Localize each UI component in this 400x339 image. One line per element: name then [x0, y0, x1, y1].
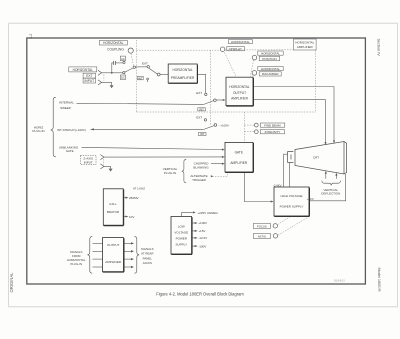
label box INPUT [83, 78, 96, 83]
svg-text:AT REAR: AT REAR [141, 252, 153, 256]
arrow into HV supply [271, 200, 274, 202]
INT contact stub [147, 80, 149, 82]
label box HORIZONTAL (magnifier) [258, 66, 283, 70]
horizontal-amplifier enclosure left edge [135, 40, 137, 112]
knob focus [273, 224, 277, 228]
wire: LV -100V stub [192, 245, 196, 247]
svg-text:POWER: POWER [176, 236, 188, 240]
svg-text:PLUG-IN: PLUG-IN [70, 262, 82, 266]
vertical deflection brace [322, 181, 341, 186]
vertical plug-in brace [182, 159, 186, 182]
contact EXT display [204, 119, 206, 121]
arrow vert defl right [335, 173, 337, 176]
arrow crt lower horiz [324, 142, 326, 145]
crt electron gun [288, 152, 294, 163]
svg-text:SUPPLY: SUPPLY [175, 243, 187, 247]
intensity knob stub [244, 131, 254, 133]
output amp input lines [93, 242, 103, 244]
svg-text:PLUG-IN: PLUG-IN [164, 171, 176, 175]
svg-text:HORIZONTAL: HORIZONTAL [295, 41, 314, 45]
svg-text:INT: INT [199, 107, 204, 111]
knob intensity [254, 130, 258, 134]
ext input jack signal [98, 70, 102, 75]
label box INT (sweep) [198, 108, 206, 111]
svg-text:DEFLECTION: DEFLECTION [321, 192, 340, 196]
svg-text:ASTIG: ASTIG [258, 234, 266, 238]
wire: chopped blanking [211, 163, 223, 165]
knob astig [273, 234, 277, 238]
rear panel right brace [134, 236, 139, 273]
wire: ext input ground lead [102, 82, 112, 85]
output amp output lines [124, 242, 132, 244]
svg-text:INT DISPLAY(+100V): INT DISPLAY(+100V) [57, 128, 86, 132]
svg-text:INPUT: INPUT [85, 79, 95, 83]
svg-text:AMPLIFIER: AMPLIFIER [231, 97, 249, 101]
knob find beam [254, 123, 258, 127]
coupling switch arm [125, 68, 133, 72]
wire: coupling pivot to EXT contact [136, 66, 148, 68]
label box DISPLAY [227, 47, 245, 51]
svg-text:FIND BEAM: FIND BEAM [264, 124, 281, 128]
svg-text:10V: 10V [129, 215, 134, 219]
box horizontal preamplifier [168, 64, 197, 83]
svg-text:ORIGINAL: ORIGINAL [9, 272, 14, 293]
enclosure right edge [315, 50, 317, 112]
wire: preamp output down to EXT contact [197, 74, 205, 93]
z-axis jack ground [100, 164, 104, 169]
focus knob linkage to HV supply [278, 216, 291, 224]
arrow alternate trigger [211, 175, 214, 177]
label box Z-AXIS INPUT (dashed) [80, 155, 96, 164]
label box FOCUS [253, 223, 270, 228]
arrow chopped blanking into gate amp [222, 163, 225, 165]
svg-text:POWER SUPPLY: POWER SUPPLY [280, 204, 304, 208]
svg-text:BRATOR: BRATOR [107, 210, 120, 214]
svg-text:GATE: GATE [66, 149, 74, 153]
svg-text:INT: INT [138, 76, 143, 80]
label box ASTIG [253, 233, 270, 238]
svg-text:-2.4KV: -2.4KV [273, 183, 282, 187]
linkage to gate amplifier [243, 112, 245, 142]
wire: vertical deflection stub right [335, 174, 337, 179]
svg-text:HORIZONTAL: HORIZONTAL [261, 67, 280, 71]
knob horizontal display [220, 47, 225, 52]
wire: int display line [91, 128, 204, 130]
box low voltage power supply [171, 217, 192, 255]
svg-text:INT: INT [200, 132, 205, 136]
find beam knob stub [244, 124, 254, 126]
svg-text:HORIZONTAL: HORIZONTAL [103, 41, 124, 45]
wire: output amp to crt upper [254, 87, 334, 142]
contact AC [123, 61, 125, 63]
svg-text:SIGNALS: SIGNALS [141, 247, 154, 251]
wire: gate amp to HV supply [244, 172, 271, 201]
label box POSITION [259, 56, 280, 60]
svg-text:DC: DC [121, 76, 125, 80]
label box AC [120, 56, 125, 61]
svg-text:EXT: EXT [196, 91, 202, 95]
box horizontal output amplifier [226, 77, 253, 106]
svg-text:INTERNAL: INTERNAL [59, 100, 74, 104]
box gate amplifier [225, 142, 253, 172]
diagram border frame [27, 38, 366, 284]
svg-text:OUTPUT: OUTPUT [107, 243, 120, 247]
label box DC [120, 75, 125, 80]
svg-text:EXT: EXT [142, 62, 148, 66]
label box HORIZONTAL (ext input) [69, 67, 97, 72]
box high voltage power supply [274, 187, 309, 216]
pivot sweep switch [214, 99, 217, 102]
svg-text:HORIZONTAL: HORIZONTAL [229, 85, 250, 89]
svg-text:AC: AC [121, 57, 125, 61]
coupling knob linkage [131, 54, 134, 66]
svg-text:VOLTAGE: VOLTAGE [174, 230, 188, 234]
wire: LV -12.6V stub [192, 237, 196, 239]
horiz plug-in brace [51, 97, 56, 157]
wire: sweep pivot to output amp [216, 99, 222, 101]
svg-text:-100V: -100V [198, 244, 206, 248]
arrow unblanking into gate amp [222, 149, 225, 151]
svg-text:Model 180E/R: Model 180E/R [377, 268, 381, 292]
ground symbol ext input [110, 85, 114, 88]
wire: dc branch [112, 72, 123, 74]
display knob diagonal to output amp [225, 53, 237, 77]
linkage drop through sweep/display switches [209, 50, 211, 125]
wire: calibrator 250MV stub [123, 197, 126, 199]
wire: unblanking gate line [82, 147, 223, 149]
svg-text:AMPLIFIER: AMPLIFIER [297, 45, 314, 49]
wire: internal sweep line [77, 103, 204, 104]
svg-text:HORIZONTAL: HORIZONTAL [172, 68, 193, 72]
svg-text:PREAMPLIFIER: PREAMPLIFIER [171, 76, 195, 80]
svg-text:AT 1 KHZ: AT 1 KHZ [133, 187, 145, 191]
position knob diagonal to output amp [250, 60, 253, 77]
svg-text:+100V: +100V [198, 221, 207, 225]
svg-text:BLANKING: BLANKING [193, 165, 209, 169]
arrows rear panel [131, 242, 134, 244]
box output amplifier (rear panel) [103, 238, 124, 272]
pivot display switch [214, 124, 217, 127]
svg-text:INTENSITY: INTENSITY [265, 130, 281, 134]
svg-text:INPUT: INPUT [84, 161, 93, 165]
linkage line display-knob to left [136, 49, 220, 51]
svg-text:OUTPUT: OUTPUT [233, 91, 246, 95]
svg-text:JACKS: JACKS [143, 261, 152, 265]
ext input shield dash [103, 75, 105, 81]
svg-text:CALI-: CALI- [109, 202, 117, 206]
svg-text:COUPLING: COUPLING [107, 48, 124, 52]
svg-text:MAGNIFIER: MAGNIFIER [262, 72, 280, 76]
svg-text:HORIZONTAL: HORIZONTAL [261, 51, 280, 55]
svg-text:HORIZONTAL: HORIZONTAL [73, 68, 94, 72]
wire: LV +225V unreg [182, 212, 193, 216]
svg-text:HORIZONTAL: HORIZONTAL [231, 40, 250, 44]
svg-text:FOCUS: FOCUS [257, 224, 267, 228]
contact INT preamp [147, 78, 149, 80]
label box HORIZONTAL AMPLIFIER [294, 39, 317, 50]
label box HORIZONTAL (display) [228, 40, 252, 44]
svg-text:HIGH VOLTAGE: HIGH VOLTAGE [280, 194, 302, 198]
magnifier knob diagonal to output amp [251, 75, 253, 77]
svg-text:AMPLIFIER: AMPLIFIER [230, 161, 248, 165]
wire: HV supply to crt cathode [284, 154, 288, 187]
knob horizontal position [252, 55, 257, 60]
svg-text:+8KV: +8KV [307, 197, 314, 201]
svg-text:GATE: GATE [235, 150, 243, 154]
label box EXT [83, 73, 96, 78]
svg-text:AMPLIFIER: AMPLIFIER [105, 260, 122, 264]
z-axis jack signal [100, 155, 104, 160]
pivot coupling switch [133, 66, 135, 68]
arrows calibrator [125, 197, 128, 199]
ground symbol z-axis [109, 169, 113, 172]
wire: LV +15V stub [192, 230, 196, 232]
label box FIND BEAM [260, 123, 285, 127]
arrow into output amp [223, 99, 226, 101]
wire: calibrator 10V stub [123, 216, 126, 218]
svg-text:PANEL: PANEL [143, 256, 153, 260]
rear panel left brace [87, 236, 92, 273]
arrow vert defl left [325, 171, 327, 174]
label box HORIZONTAL (position) [258, 51, 283, 55]
enclosure bottom edge [136, 111, 315, 113]
label box INT (display) [198, 133, 206, 136]
svg-text:0180-B-15: 0180-B-15 [334, 280, 345, 282]
arrow int display wire start [91, 128, 94, 130]
svg-text:+225V UNREG: +225V UNREG [197, 211, 218, 215]
astig knob linkage to HV supply [278, 217, 309, 235]
arrow +225V [193, 211, 196, 213]
svg-text:DISPLAY: DISPLAY [229, 47, 241, 51]
pivot preamp switch [157, 73, 160, 76]
svg-text:→+100V: →+100V [217, 123, 229, 127]
alternate trigger dashed wire [212, 172, 227, 176]
svg-text:EXT: EXT [196, 115, 202, 119]
display switch arm [204, 126, 214, 130]
wire: HV supply to crt grid [289, 163, 291, 187]
svg-text:4-2: 4-2 [29, 34, 33, 39]
crt V1 [288, 142, 347, 175]
contact EXT preamp [147, 66, 149, 68]
wire: z-axis ground lead [104, 166, 111, 168]
svg-text:250MV: 250MV [129, 196, 139, 200]
contact EXT sweep [205, 93, 207, 95]
svg-text:TRIGGER: TRIGGER [192, 178, 207, 182]
label box INTENSITY [260, 130, 284, 134]
label box MAGNIFIER [259, 72, 281, 76]
arrow z-axis into gate amp [222, 156, 225, 158]
svg-text:LOW: LOW [178, 224, 185, 228]
svg-text:EXT: EXT [86, 74, 92, 78]
wire: preamp switch pivot to preamp [160, 73, 168, 75]
svg-text:POSITION: POSITION [262, 57, 276, 61]
arrows LV outputs [195, 222, 198, 224]
label box HORIZONTAL (coupling) [99, 40, 127, 45]
svg-text:CRT: CRT [313, 156, 319, 160]
svg-text:-12.6V: -12.6V [198, 236, 207, 240]
svg-text:PLUG-IN: PLUG-IN [32, 129, 44, 133]
wire: z-axis input line [104, 156, 223, 158]
knob horizontal magnifier [252, 71, 257, 76]
preamp input switch arm [149, 68, 158, 74]
arrow crt upper horiz [333, 141, 335, 144]
wire: LV +100V stub [192, 222, 196, 224]
box calibrator [103, 189, 123, 226]
wire: ac branch [112, 63, 113, 73]
svg-text:SWEEP: SWEEP [60, 106, 71, 110]
contact DC [123, 72, 125, 74]
wire: HV +8KV to crt screen [309, 174, 345, 201]
wire: output amp to crt lower [254, 100, 326, 144]
knob horizontal coupling [128, 48, 133, 53]
sweep switch arm [204, 101, 214, 105]
svg-text:Section IV: Section IV [377, 39, 381, 57]
z-axis input shield dash [103, 159, 105, 165]
label box INT (preamp) [137, 76, 143, 80]
ext input jack ground [98, 80, 102, 85]
wire: ext input to coupling junction [102, 72, 112, 74]
svg-text:+15V: +15V [198, 229, 205, 233]
wire: vertical deflection stub left [325, 172, 327, 179]
svg-text:Figure 4-2. Model 180ER Overa: Figure 4-2. Model 180ER Overall Block Di… [156, 292, 244, 297]
junction dot coupling tee [111, 72, 113, 74]
capacitor coupling [113, 61, 115, 65]
